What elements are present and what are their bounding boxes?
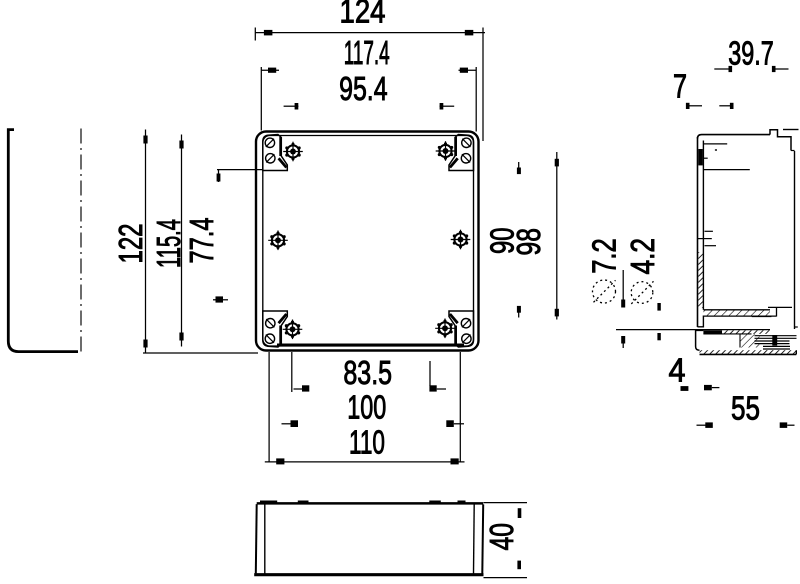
- svg-text:7.2: 7.2: [586, 238, 623, 274]
- corner boss top-left: [263, 135, 288, 171]
- front view outline: [257, 502, 484, 505]
- lid seal edge (thick bottom line): [277, 344, 464, 347]
- svg-text:110: 110: [349, 424, 385, 461]
- dim 115.4: [150, 135, 187, 347]
- lid bottom hatched band: [700, 350, 797, 354]
- svg-text:100: 100: [347, 388, 386, 425]
- top right tab: [770, 130, 791, 151]
- dim 4: [669, 352, 720, 391]
- svg-text:40: 40: [483, 523, 520, 551]
- dim 39.7: [714, 35, 788, 73]
- side view top edge: [698, 135, 771, 139]
- side view left inner wall: [702, 141, 704, 310]
- lid clip marks on top edge: [260, 501, 277, 504]
- dim 77.4: [183, 170, 263, 303]
- lid screw mid-right: [451, 230, 471, 250]
- svg-text:39.7: 39.7: [728, 35, 774, 72]
- lid screw mid-left: [268, 231, 288, 251]
- dim 100: [282, 388, 465, 427]
- svg-text:95.4: 95.4: [339, 70, 388, 107]
- dim 7: [673, 68, 734, 110]
- dim 40: [483, 503, 527, 578]
- svg-text:7: 7: [673, 68, 687, 105]
- lid screw lines: [755, 335, 797, 337]
- dim 110: [265, 352, 465, 464]
- lid left outline: [8, 130, 78, 352]
- svg-text:83.5: 83.5: [343, 354, 392, 391]
- lid screw detail hatch: [740, 334, 760, 347]
- svg-text:115.4: 115.4: [150, 219, 187, 268]
- front view inner wall lines: [264, 504, 266, 574]
- svg-text:117.4: 117.4: [344, 34, 390, 71]
- wall hatch: [698, 252, 703, 308]
- lid screw bottom-left: [283, 320, 303, 340]
- dim 83.5: [292, 352, 446, 392]
- side view left outer wall: [697, 137, 699, 327]
- svg-text:4: 4: [669, 352, 686, 389]
- dim 55: [697, 390, 795, 428]
- enclosure outer outline: [256, 132, 479, 351]
- lid section: [696, 330, 704, 350]
- corner boss bottom-right: [449, 311, 474, 347]
- box floor band: [703, 309, 770, 311]
- enclosure inner outline: [263, 136, 474, 347]
- lid screw top-left: [283, 142, 303, 162]
- hole center line to side view: [616, 329, 698, 331]
- lid gasket: [703, 330, 722, 334]
- hole diameter annotations 7.2 / 4.2: [586, 238, 698, 348]
- dim ticks 4.2: [657, 303, 660, 311]
- wall solid section fill: [698, 149, 703, 165]
- lid screw bottom-right: [435, 319, 455, 339]
- svg-text:122: 122: [112, 224, 149, 264]
- svg-text:98: 98: [510, 228, 547, 256]
- dim 95.4: [284, 70, 455, 110]
- wall foot: [698, 316, 704, 327]
- wall hole feature lines: [705, 230, 713, 232]
- dim 98: [510, 152, 559, 320]
- dim 122: [112, 130, 258, 354]
- lid centerline (dash-dot): [80, 129, 82, 353]
- side view right edge: [794, 151, 796, 329]
- svg-text:55: 55: [731, 390, 760, 427]
- dim 117.4: [261, 34, 476, 132]
- svg-text:4.2: 4.2: [624, 238, 661, 275]
- svg-text:77.4: 77.4: [183, 218, 220, 264]
- interior lines top: [703, 143, 727, 145]
- corner boss bottom-left: [263, 311, 288, 347]
- dim line 7.2: [622, 270, 624, 308]
- corner boss top-right: [449, 135, 474, 171]
- lid screw top-right: [436, 141, 456, 161]
- dim 90: [484, 162, 521, 318]
- svg-text:124: 124: [340, 0, 386, 30]
- dim 124: [255, 0, 485, 141]
- top right stub line: [783, 129, 799, 131]
